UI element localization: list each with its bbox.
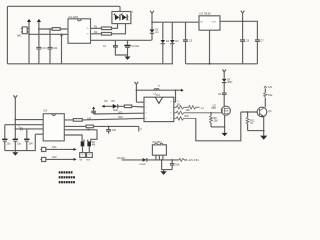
svg-text:R08: R08 (86, 159, 89, 161)
svg-text:10K: 10K (214, 120, 219, 123)
svg-text:T08: T08 (79, 159, 82, 161)
svg-text:2x: 2x (87, 34, 89, 36)
svg-text:8: 8 (171, 102, 172, 104)
svg-text:DC12V: DC12V (117, 157, 125, 160)
svg-text:IC1 2262: IC1 2262 (68, 16, 78, 19)
svg-text:1: 1 (128, 17, 129, 19)
svg-text:104: 104 (175, 163, 180, 166)
svg-text:10K: 10K (186, 109, 191, 112)
svg-text:1: 1 (146, 102, 147, 104)
svg-text:C: C (19, 125, 21, 128)
svg-text:MIC: MIC (17, 35, 22, 38)
svg-text:XS2: XS2 (52, 156, 57, 159)
svg-text:1M: 1M (87, 128, 90, 131)
svg-text:IC2 78L05: IC2 78L05 (200, 13, 212, 16)
svg-text:5: 5 (171, 118, 172, 120)
svg-text:6: 6 (171, 113, 172, 115)
svg-text:10K: 10K (87, 118, 92, 121)
svg-text:C: C (140, 128, 142, 131)
svg-text:104: 104 (29, 143, 34, 146)
svg-text:4.7u: 4.7u (42, 47, 47, 50)
svg-text:3: 3 (146, 113, 147, 115)
svg-text:12V: 12V (268, 86, 273, 89)
svg-text:2: 2 (128, 20, 129, 22)
svg-text:104: 104 (112, 129, 117, 132)
svg-text:2x: 2x (87, 28, 89, 30)
svg-text:VR1: VR1 (118, 112, 123, 115)
svg-text:C2 10u: C2 10u (132, 45, 140, 48)
svg-text:IC3: IC3 (156, 94, 160, 97)
svg-text:2: 2 (146, 107, 147, 109)
svg-text:10u: 10u (17, 143, 22, 146)
svg-text:R12: R12 (268, 94, 273, 97)
svg-text:7: 7 (171, 107, 172, 109)
svg-text:XS1: XS1 (52, 146, 57, 149)
svg-text:1N4007: 1N4007 (139, 164, 147, 166)
svg-text:104: 104 (53, 47, 58, 50)
svg-text:+12V 0.5A: +12V 0.5A (188, 159, 200, 162)
svg-text:4M: 4M (92, 144, 95, 147)
svg-text:R10: R10 (185, 115, 190, 118)
svg-text:IC4: IC4 (44, 110, 48, 113)
svg-text:VR2: VR2 (118, 116, 123, 119)
svg-text:4: 4 (146, 118, 147, 120)
svg-text:KIA7812: KIA7812 (153, 141, 163, 144)
svg-text:10u: 10u (7, 143, 12, 146)
svg-text:1K: 1K (250, 122, 253, 125)
svg-text:4007: 4007 (227, 81, 233, 84)
svg-text:55N: 55N (211, 107, 216, 110)
